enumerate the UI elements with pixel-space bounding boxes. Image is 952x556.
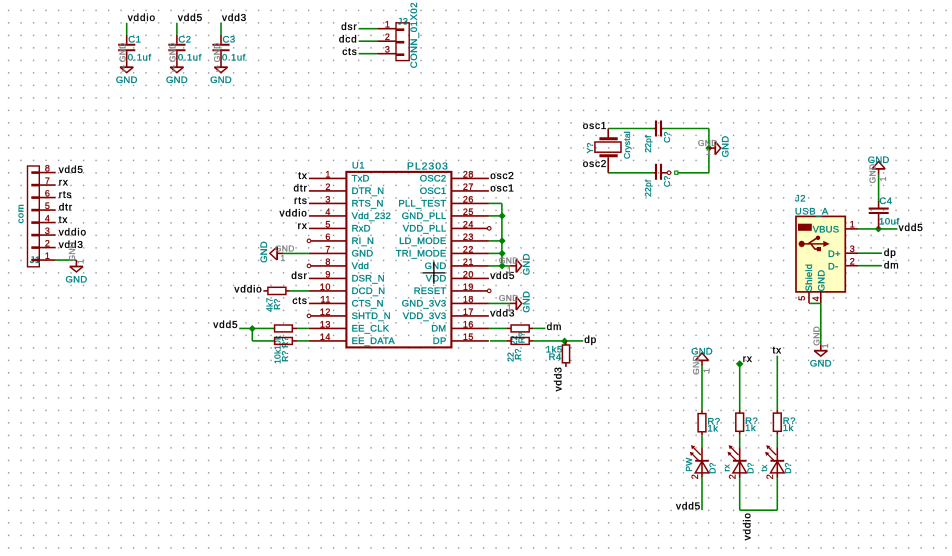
junction [705,145,712,152]
svg-text:OSC2: OSC2 [420,174,447,185]
junction [499,262,506,269]
J3 pin 2 dcd [377,32,404,42]
J3 pin 1 dsr [377,20,404,30]
U1 pin 22 TRI_MODE [396,244,489,259]
U1 pin 5 RxD [309,219,371,234]
wire D+ [858,252,882,254]
label vddio [280,209,308,220]
svg-text:vdd5: vdd5 [178,13,203,24]
wire [534,327,546,329]
svg-text:15: 15 [463,332,474,342]
label osc2 [583,159,608,170]
ground [499,291,532,313]
capacitor C? 22pf bottom [643,164,672,197]
svg-text:GND: GND [166,75,188,86]
J2 pin 5 Shield [797,264,815,303]
svg-text:R4: R4 [549,352,562,363]
wire pin21 to ground [489,265,510,267]
wire [534,340,584,342]
U1 pin 18 GND_3V3 [402,294,489,309]
connector J2 USB_A body [795,194,845,292]
wire [739,435,741,448]
svg-text:PLL_TEST: PLL_TEST [398,199,446,210]
svg-text:vdd5: vdd5 [676,501,701,512]
power flag vdd3 [222,13,247,24]
label vdd5 [490,271,515,282]
svg-text:1: 1 [76,259,86,264]
svg-text:16: 16 [463,319,474,329]
resistor R? 1k [736,410,759,435]
svg-text:C?: C? [662,176,672,187]
svg-text:SHTD_N: SHTD_N [352,311,391,322]
label vdd3 [490,309,515,320]
svg-text:25: 25 [463,207,474,217]
svg-text:1: 1 [878,176,888,181]
svg-text:1: 1 [45,251,51,261]
svg-text:RI_N: RI_N [352,236,374,247]
resistor R4 1k5 [546,341,570,367]
svg-text:0.1uf: 0.1uf [178,53,202,64]
svg-text:RTS_N: RTS_N [352,199,384,210]
svg-text:vdd3: vdd3 [222,13,247,24]
svg-text:dtr: dtr [59,203,73,214]
svg-text:D?: D? [783,462,793,473]
svg-text:GND: GND [168,42,178,62]
svg-text:Vdd: Vdd [352,261,370,272]
wire [776,478,778,510]
ground [691,347,713,375]
svg-text:2: 2 [325,182,331,192]
cursor crosshair [422,262,445,284]
svg-text:19: 19 [463,282,474,292]
svg-text:R?: R? [272,299,282,310]
label dsr [341,22,357,33]
svg-text:2: 2 [728,474,738,480]
svg-text:GND: GND [425,261,447,272]
label dsr [291,271,307,282]
svg-text:rx: rx [743,354,753,365]
label cts [342,47,357,58]
svg-text:C1: C1 [128,35,141,46]
label dp [584,335,597,346]
J1 pin 8 [31,163,55,173]
wire right bus [708,129,710,173]
svg-text:28: 28 [463,169,474,179]
svg-text:rx: rx [722,464,732,472]
svg-text:2: 2 [385,32,391,42]
wire [297,340,309,342]
U1 pin 3 RTS_N [309,194,384,209]
svg-text:DCD_N: DCD_N [352,286,386,297]
capacitor C1 [118,35,151,64]
ground [66,242,88,286]
label osc1 [583,121,608,132]
U1 pin 17 VDD_3V3 [403,307,489,322]
svg-text:D?: D? [708,462,718,473]
svg-text:GND: GND [867,164,877,184]
ground [166,42,188,86]
led D? tx [759,445,793,479]
U1 pin 26 PLL_TEST [398,194,489,209]
capacitor C3 [212,35,245,64]
svg-text:cts: cts [292,296,307,307]
label dtr [59,203,73,214]
label vdd3 [59,240,84,251]
svg-text:RxD: RxD [352,224,371,235]
U1 pin 21 GND [425,257,489,272]
svg-text:PL2303: PL2303 [407,160,449,172]
svg-text:GND: GND [810,359,832,370]
label vdd5 [899,223,924,234]
wire [776,356,778,410]
label vdd5 [59,165,84,176]
svg-text:GND: GND [521,291,532,313]
wire pin22 [489,252,502,254]
svg-text:rts: rts [59,190,73,201]
svg-text:GND: GND [66,274,88,285]
svg-text:D-: D- [828,261,838,272]
J1 pin 3 [31,226,55,236]
svg-text:3: 3 [850,244,856,254]
wire [740,478,778,510]
wire [297,327,309,329]
wire [290,290,309,292]
wire vdd5 to R1 [239,327,274,329]
J1 pin 7 [31,176,55,186]
wire osc2 [608,172,654,174]
wire to ground [820,303,822,344]
label vddio rotated [742,512,753,540]
wire [701,478,703,510]
resistor R3 22 [507,325,534,345]
svg-text:com: com [16,204,27,224]
label rts [59,190,73,201]
svg-text:1k: 1k [783,423,794,434]
label cts [292,296,307,307]
svg-text:R?: R? [280,337,290,348]
svg-text:VBUS: VBUS [813,224,840,235]
wire dsr [359,28,378,30]
wire DM [489,327,507,329]
J1 pin 2 [31,238,55,248]
svg-text:C3: C3 [223,35,236,46]
junction [499,212,506,219]
label rx [743,354,753,365]
svg-text:tx: tx [298,171,307,182]
svg-text:1: 1 [702,368,712,373]
svg-text:J3: J3 [398,17,409,28]
svg-text:J2: J2 [795,194,806,205]
svg-text:USB_A: USB_A [795,207,829,218]
svg-text:1: 1 [850,220,856,230]
wire pin25 [489,215,502,217]
svg-text:dcd: dcd [339,34,358,45]
svg-text:3: 3 [45,226,51,236]
label dcd [339,34,358,45]
svg-text:GND: GND [720,136,731,158]
svg-text:1: 1 [280,253,285,263]
svg-text:GND_3V3: GND_3V3 [402,299,447,310]
svg-text:VDD: VDD [426,274,447,285]
svg-text:26: 26 [463,194,474,204]
connector J1 com body [16,166,41,267]
svg-text:1: 1 [171,64,176,74]
svg-text:TxD: TxD [352,174,370,185]
svg-text:GND: GND [521,253,532,275]
U1 pin 23 LD_MODE [399,232,489,247]
svg-text:Y?: Y? [585,142,595,153]
label osc1 [490,184,515,195]
svg-text:GND: GND [352,249,374,260]
svg-text:GND: GND [212,42,222,62]
svg-text:Shield: Shield [804,264,815,292]
U1 pin 9 DSR_N [309,269,385,284]
wire U1 pin18 to ground [489,302,510,304]
U1 pin 16 DM [431,319,489,334]
svg-text:cts: cts [342,47,357,58]
svg-text:DSR_N: DSR_N [352,274,385,285]
svg-text:0.1uf: 0.1uf [128,53,152,64]
J1 pin 6 [31,188,55,198]
J3 pin 3 cts [377,45,404,55]
svg-text:dp: dp [584,335,597,346]
svg-text:dsr: dsr [341,22,357,33]
led D? PW [684,445,718,479]
svg-text:1k: 1k [745,423,756,434]
svg-text:vddio: vddio [742,512,753,540]
svg-text:vddio: vddio [128,13,156,24]
label dp [884,248,897,259]
label rx [59,178,69,189]
wire D- [858,265,882,267]
svg-text:3: 3 [385,45,391,55]
wire shield join [809,302,821,304]
svg-text:4: 4 [325,207,331,217]
wire [739,364,741,410]
svg-text:1k: 1k [707,423,718,434]
svg-text:8: 8 [45,163,51,173]
svg-text:tx: tx [59,215,68,226]
wire [220,23,222,35]
ground [499,253,532,275]
svg-text:5: 5 [325,219,331,229]
svg-text:7: 7 [45,176,51,186]
svg-text:0.1uf: 0.1uf [222,53,246,64]
svg-text:osc2: osc2 [490,171,515,182]
label vddio [234,285,262,296]
svg-text:rts: rts [294,196,308,207]
U1 pin 25 GND_PLL [402,207,489,222]
svg-text:GND_PLL: GND_PLL [402,211,447,222]
resistor R? 4k7 [263,287,290,312]
svg-text:dtr: dtr [293,184,307,195]
svg-text:CTS_N: CTS_N [352,299,384,310]
ground [210,42,232,86]
svg-text:GND: GND [116,75,138,86]
svg-text:D+: D+ [828,249,841,260]
svg-text:22pf: 22pf [643,135,653,153]
svg-text:3: 3 [325,194,331,204]
wire with dangling end [675,171,709,174]
svg-text:1: 1 [706,147,711,157]
U1 pin 15 DP [433,332,489,347]
svg-text:17: 17 [463,307,474,317]
svg-text:6: 6 [45,188,51,198]
svg-text:DM: DM [431,324,446,335]
svg-text:12: 12 [320,307,331,317]
ic U1 PL2303 body [346,160,451,347]
U1 pin 14 EE_DATA [309,332,395,347]
svg-text:OSC1: OSC1 [420,186,447,197]
svg-text:Crystal: Crystal [622,131,632,159]
wire dcd [359,40,378,42]
svg-text:Vdd_232: Vdd_232 [352,211,391,222]
wire [663,128,709,130]
label rx [298,221,308,232]
U1 pin 1 TxD [309,169,370,184]
wire J1 pin1 to ground [56,259,77,261]
svg-text:D?: D? [745,462,755,473]
svg-text:1: 1 [121,64,126,74]
svg-text:14: 14 [320,332,331,342]
svg-text:U1: U1 [352,161,365,172]
U1 pin 27 OSC1 [420,182,489,197]
svg-text:EE_DATA: EE_DATA [352,336,396,347]
svg-text:dm: dm [547,322,563,333]
power flag vdd5 [178,13,203,24]
svg-text:2: 2 [690,474,700,480]
svg-text:PW: PW [684,458,694,472]
ground [810,326,832,370]
label dm [547,322,563,333]
svg-text:5: 5 [45,201,51,211]
label dtr [293,184,307,195]
svg-text:DTR_N: DTR_N [352,186,385,197]
J2 pin 1 VBUS [813,220,859,236]
wire U1 pin7 to ground [283,252,309,254]
svg-text:10: 10 [320,282,331,292]
U1 pin 6 RI_N [307,232,374,247]
svg-text:vdd5: vdd5 [59,165,84,176]
ground [698,136,731,158]
junction [875,225,882,232]
wire [701,366,703,410]
power flag vddio [128,13,156,24]
svg-text:1: 1 [820,343,830,348]
svg-text:R?: R? [513,349,523,360]
svg-text:rx: rx [59,178,69,189]
resistor R2 10k [273,338,297,364]
J2 pin 3 D+ [828,244,859,260]
svg-text:osc1: osc1 [583,121,608,132]
label vdd5 [676,501,701,512]
wire [701,435,703,447]
svg-text:22pf: 22pf [643,179,653,197]
svg-text:13: 13 [320,319,331,329]
resistor R? 1k [773,410,796,435]
svg-text:6: 6 [325,232,331,242]
svg-text:dsr: dsr [291,271,307,282]
svg-text:GND: GND [691,355,701,375]
svg-text:rx: rx [298,221,308,232]
wire [776,435,778,448]
svg-text:tx: tx [759,464,769,472]
wire down to R2 [252,328,274,341]
U1 pin 7 GND [309,244,373,259]
svg-text:20: 20 [463,269,474,279]
svg-text:C4: C4 [879,196,892,207]
svg-text:GND: GND [817,270,828,292]
label tx [59,215,68,226]
svg-text:GND: GND [868,155,890,166]
J1 pin 5 [31,201,55,211]
resistor R5 22 [505,338,533,362]
svg-text:24: 24 [463,219,474,229]
junction [736,360,744,368]
svg-text:4: 4 [45,213,51,223]
svg-text:9: 9 [325,269,331,279]
label vdd5 [213,320,238,331]
U1 pin 28 OSC2 [420,169,489,184]
U1 pin 20 VDD [426,269,489,284]
resistor R1 10k [273,325,297,350]
junction [499,250,506,257]
svg-text:vddio: vddio [59,228,87,239]
U1 pin 24 VDD_PLL [403,219,491,234]
capacitor C4 10uf [869,196,900,229]
label osc2 [490,171,515,182]
ground [259,241,295,263]
U1 pin 12 SHTD_N [307,307,391,322]
junction [561,338,568,345]
svg-text:VDD_3V3: VDD_3V3 [403,311,447,322]
svg-text:2: 2 [765,474,775,480]
svg-text:5: 5 [797,295,807,301]
svg-text:tx: tx [773,346,782,357]
svg-text:GND: GND [691,347,713,358]
svg-text:27: 27 [463,182,474,192]
svg-text:22: 22 [463,244,474,254]
U1 pin 4 Vdd_232 [309,207,391,222]
svg-text:osc1: osc1 [490,184,515,195]
svg-text:2: 2 [45,238,51,248]
svg-text:vddio: vddio [234,285,262,296]
wire pin23 [489,240,502,242]
U1 pin 19 RESET [414,282,491,297]
junction [249,325,256,332]
svg-text:vdd3: vdd3 [554,366,565,391]
svg-text:23: 23 [463,232,474,242]
svg-text:EE_CLK: EE_CLK [352,324,390,335]
svg-text:R?: R? [280,351,290,362]
wire PLL_TEST bus [489,203,502,266]
svg-text:1: 1 [216,64,221,74]
capacitor C2 [168,35,201,64]
svg-text:osc2: osc2 [583,159,608,170]
label tx [773,346,782,357]
svg-text:7: 7 [325,244,331,254]
junction [499,237,506,244]
svg-text:RESET: RESET [414,286,447,297]
ground [867,155,889,183]
svg-text:8: 8 [325,257,331,267]
svg-text:GND: GND [210,75,232,86]
label dm [884,261,900,272]
connector J3 CONN_01X02 body [396,2,420,68]
U1 pin 8 Vdd [307,257,369,272]
svg-text:vddio: vddio [280,209,308,220]
svg-text:11: 11 [321,294,331,304]
